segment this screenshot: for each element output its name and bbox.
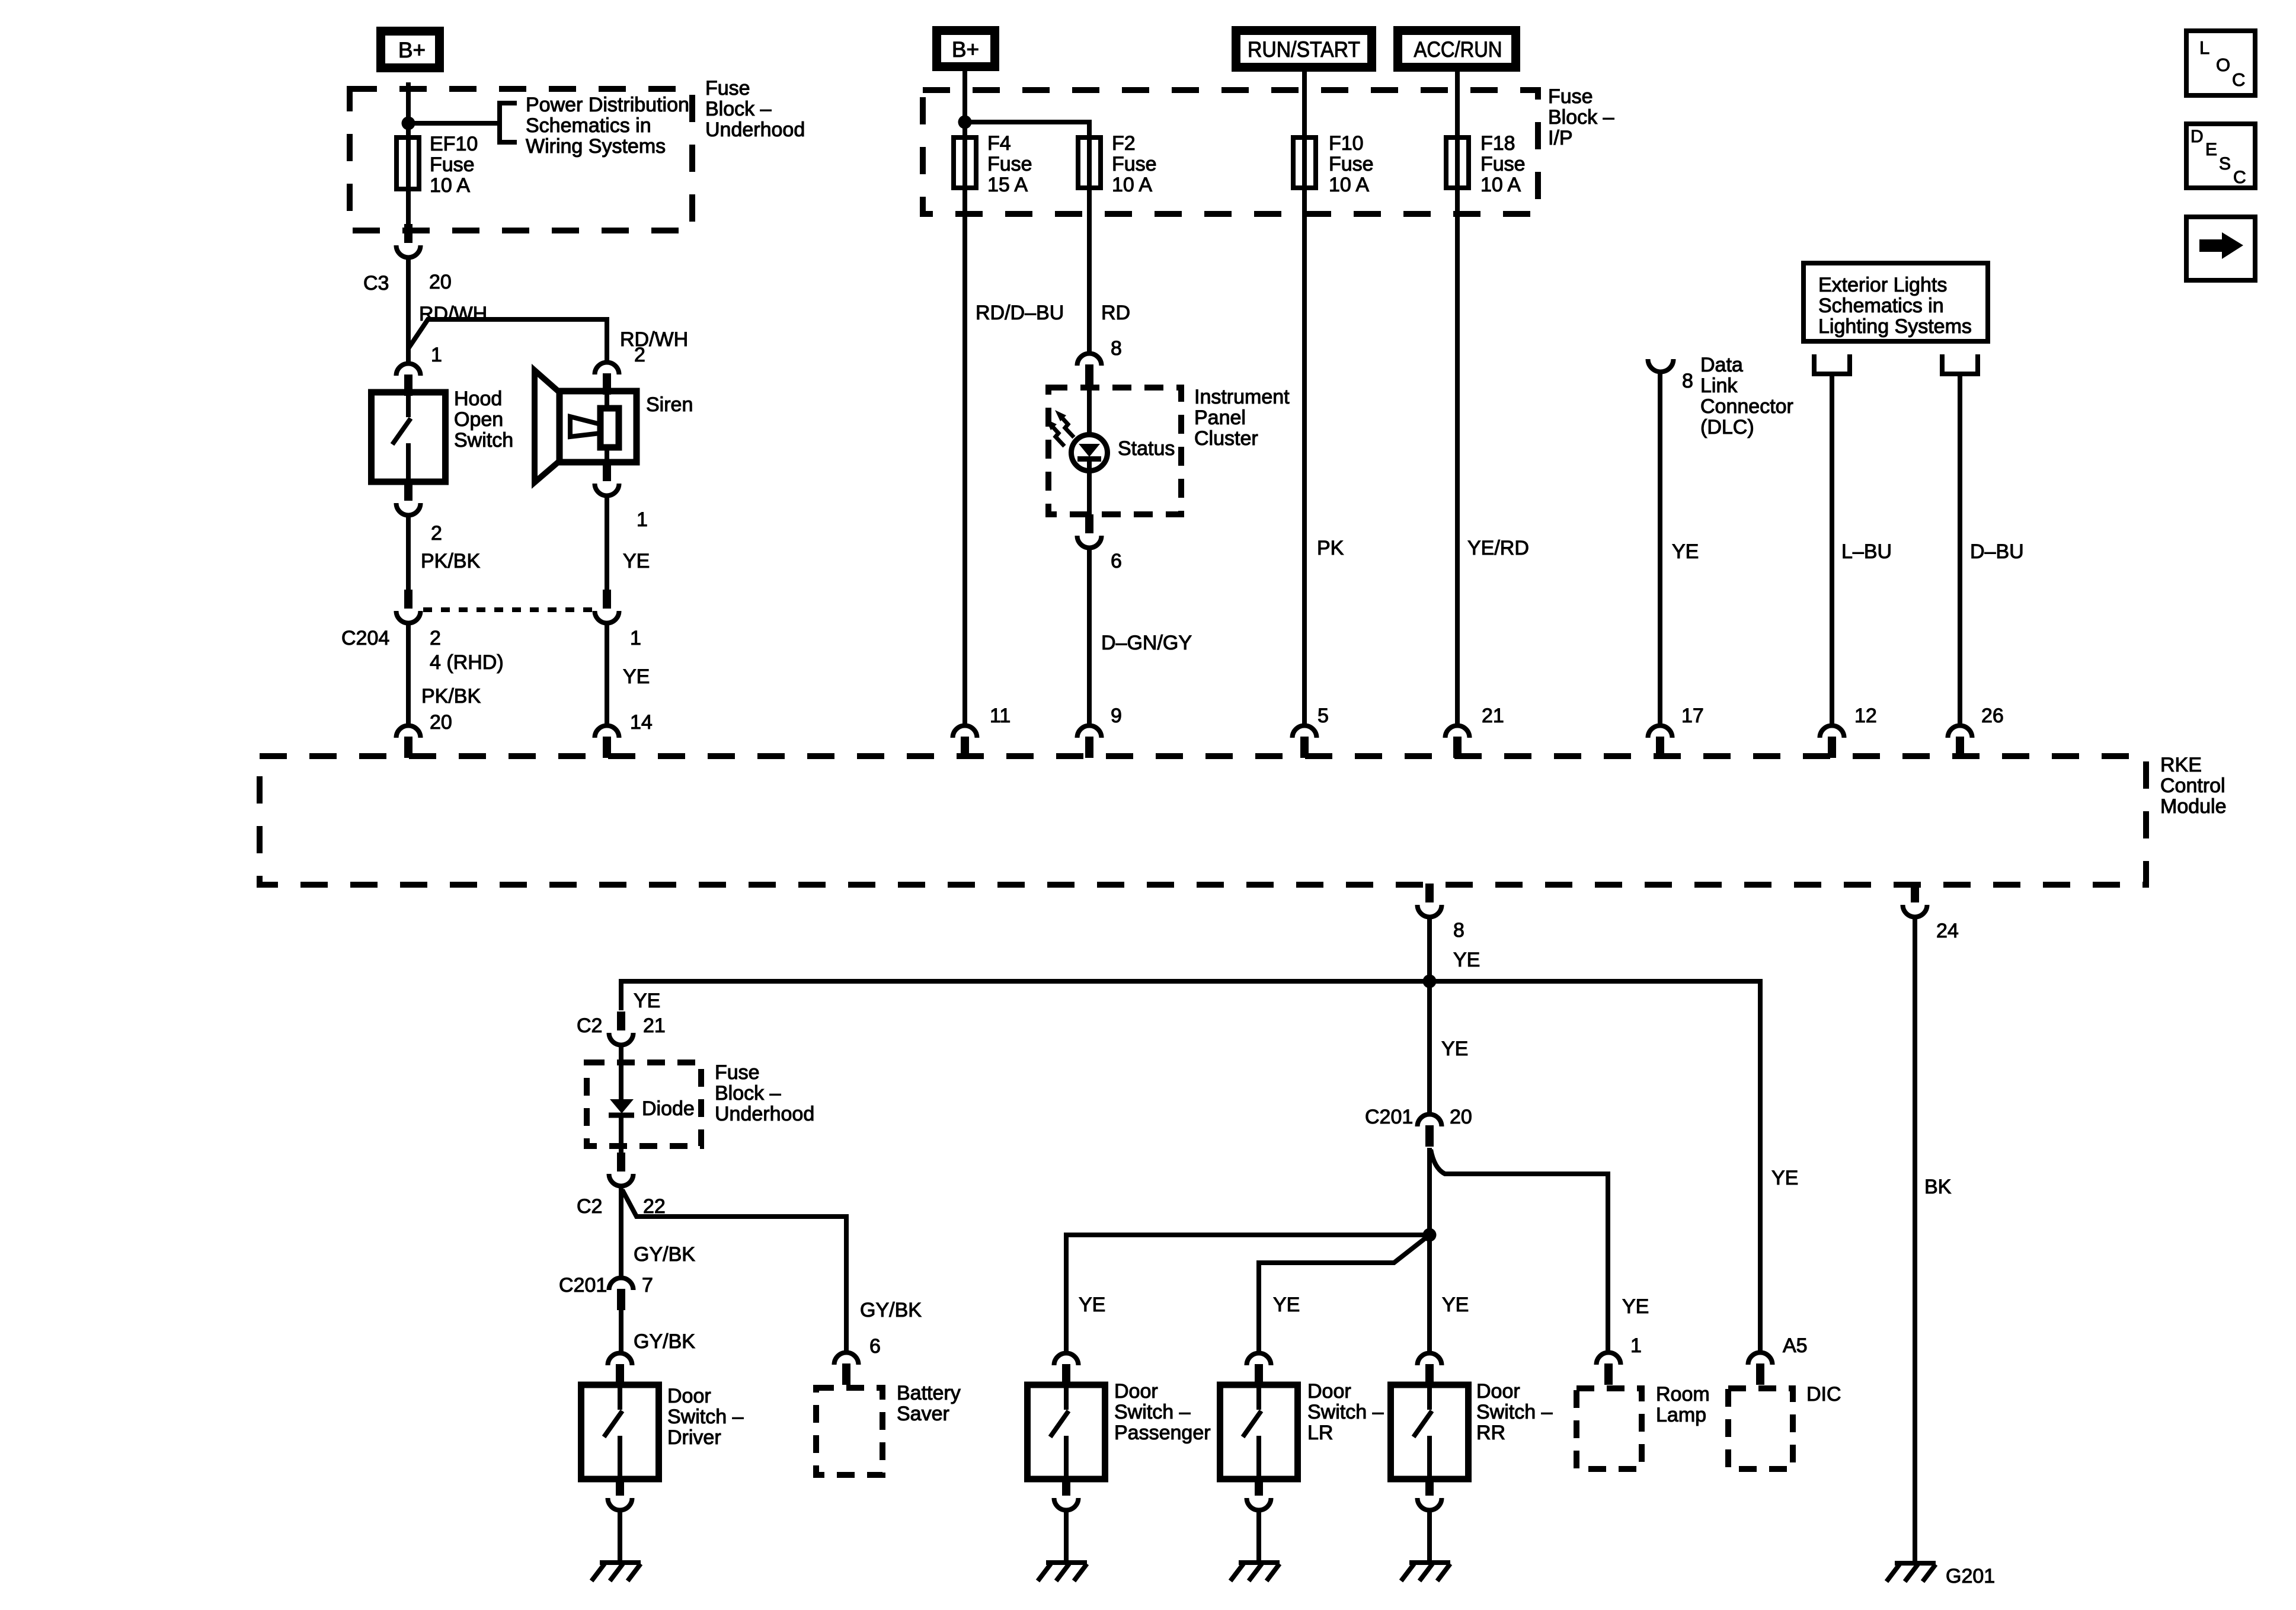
svg-text:YE: YE: [1622, 1295, 1649, 1318]
svg-text:EF10: EF10: [430, 133, 478, 155]
icon box DESC: [2186, 124, 2255, 188]
svg-text:Schematics in: Schematics in: [526, 114, 651, 137]
svg-text:Door: Door: [667, 1385, 711, 1407]
wire C3 to hood open switch: [406, 260, 411, 363]
svg-text:Fuse: Fuse: [715, 1061, 760, 1084]
label Power Distribution Schematics in Wiring Systems: [526, 94, 689, 158]
bracket to D-BU wire: [1942, 354, 1978, 374]
svg-text:F4: F4: [987, 132, 1011, 155]
svg-text:Fuse: Fuse: [1480, 153, 1526, 175]
label YE (RR): [1442, 1294, 1469, 1316]
svg-text:Link: Link: [1700, 375, 1738, 397]
svg-text:PK/BK: PK/BK: [421, 550, 480, 572]
wire C204 to RKE pin 20: [406, 625, 411, 724]
wire passenger switch to ground: [1064, 1512, 1069, 1563]
svg-text:1: 1: [637, 508, 648, 531]
connector hood switch pin 2: [396, 482, 421, 515]
label Instrument Panel Cluster: [1194, 386, 1290, 450]
svg-text:Status: Status: [1118, 437, 1175, 460]
label GY/BK (to driver switch): [634, 1330, 695, 1353]
label PK/BK (hood sw to C204): [421, 550, 480, 572]
connector RKE pin 26: [1948, 726, 1972, 758]
wire to passenger door switch: [1066, 1235, 1430, 1352]
label RD: [1101, 302, 1130, 324]
svg-text:RUN/START: RUN/START: [1248, 37, 1360, 62]
wire C201-20 down: [1427, 1148, 1432, 1235]
svg-text:Switch –: Switch –: [1307, 1401, 1384, 1423]
connector siren pin 1: [595, 462, 619, 495]
connector RKE pin 8: [1418, 884, 1442, 917]
connector door switch RR pin: [1418, 1353, 1442, 1385]
wire hood switch to C204: [406, 517, 411, 592]
svg-text:20: 20: [429, 271, 452, 293]
connector C3 pin 20: [396, 224, 421, 257]
svg-text:GY/BK: GY/BK: [860, 1299, 922, 1321]
label 9 (RKE pin): [1111, 705, 1122, 727]
label RKE Control Module: [2160, 754, 2227, 818]
wire lamp feed bus: [621, 981, 1760, 1352]
wire pin 8 to junction: [1427, 919, 1432, 981]
junction dot I/P: [958, 116, 972, 129]
svg-text:L: L: [2199, 37, 2209, 58]
fuse EF10 10A: [396, 135, 419, 191]
svg-text:Fuse: Fuse: [987, 153, 1032, 175]
power symbol RUN/START: [1236, 31, 1372, 68]
wire junction to reference bracket: [408, 121, 498, 126]
wire F18 to RKE pin 21: [1455, 190, 1460, 724]
label 1 (room lamp pin): [1630, 1334, 1642, 1357]
wire RUN/START to fuse F10: [1302, 71, 1307, 144]
label RD/WH (hood switch wire): [419, 303, 487, 325]
svg-text:YE: YE: [1771, 1167, 1798, 1189]
svg-text:YE: YE: [1079, 1294, 1105, 1316]
svg-text:YE: YE: [634, 990, 660, 1012]
label 1 (C204 siren side): [630, 627, 641, 649]
label 12 (RKE pin): [1854, 705, 1877, 727]
label Battery Saver: [897, 1382, 961, 1425]
svg-text:Door: Door: [1307, 1380, 1351, 1403]
label RD/WH (siren wire): [620, 328, 688, 351]
svg-text:DIC: DIC: [1806, 1383, 1841, 1406]
svg-text:Module: Module: [2160, 795, 2227, 818]
connector IPC pin 8: [1077, 354, 1102, 386]
svg-text:YE: YE: [623, 665, 650, 688]
connector RKE pin 12: [1820, 726, 1844, 758]
svg-text:YE: YE: [1441, 1038, 1468, 1060]
wire IPC to RKE pin 9: [1087, 550, 1092, 724]
label 6 (battery saver pin): [869, 1335, 881, 1358]
svg-text:15 A: 15 A: [987, 174, 1028, 196]
connector door switch LR pin: [1247, 1353, 1271, 1385]
svg-text:Hood: Hood: [454, 388, 502, 410]
label 1 (hood switch pin): [431, 344, 442, 366]
svg-text:YE: YE: [1442, 1294, 1469, 1316]
connector IPC pin 6: [1077, 514, 1102, 548]
label Fuse Block - Underhood: [705, 77, 805, 141]
wire C204 to RKE pin 14: [605, 625, 609, 724]
diode: [609, 1047, 634, 1150]
label Door Switch - LR: [1307, 1380, 1384, 1444]
svg-text:Wiring Systems: Wiring Systems: [526, 135, 666, 158]
wire driver switch to ground: [618, 1512, 622, 1563]
label C3: [363, 272, 389, 295]
label EF10 Fuse 10 A: [430, 133, 478, 197]
fuse F18 10A: [1446, 135, 1469, 190]
wire ACC/RUN to fuse F18: [1455, 71, 1460, 144]
svg-text:Siren: Siren: [646, 393, 693, 416]
connector below driver switch: [608, 1477, 632, 1510]
svg-text:10 A: 10 A: [1112, 174, 1152, 196]
label Hood Open Switch: [454, 388, 513, 452]
svg-text:8: 8: [1111, 337, 1122, 360]
label 8 (RKE output pin): [1453, 919, 1464, 942]
connector DIC pin A5: [1748, 1353, 1773, 1385]
svg-text:1: 1: [431, 344, 442, 366]
svg-text:(DLC): (DLC): [1700, 416, 1754, 438]
svg-text:5: 5: [1318, 705, 1329, 727]
svg-text:RR: RR: [1476, 1422, 1505, 1444]
wire C2-22 branch to battery saver: [622, 1190, 846, 1352]
connector RKE pin 17: [1648, 726, 1673, 758]
label YE (LR): [1273, 1294, 1300, 1316]
svg-text:Switch –: Switch –: [1114, 1401, 1191, 1423]
wire C201-7 to driver door switch: [619, 1310, 623, 1352]
svg-text:21: 21: [643, 1014, 666, 1037]
label Room Lamp: [1656, 1383, 1710, 1426]
label C201 (7): [559, 1274, 607, 1297]
label 11 (RKE pin): [990, 705, 1011, 727]
label Fuse Block - Underhood (diode): [715, 1061, 814, 1125]
wire B+ to fuse F4: [962, 71, 967, 144]
ground (LR door switch): [1230, 1563, 1280, 1581]
svg-text:Saver: Saver: [897, 1403, 949, 1425]
svg-text:10 A: 10 A: [1480, 174, 1521, 196]
battery saver dashed box: [816, 1388, 882, 1475]
label F2 Fuse 10 A: [1112, 132, 1157, 196]
svg-text:Block –: Block –: [1548, 106, 1614, 129]
svg-text:17: 17: [1681, 705, 1704, 727]
svg-text:C2: C2: [577, 1014, 602, 1037]
wire C201-20 to room lamp: [1431, 1150, 1609, 1352]
wire C2-22 to C201-7: [619, 1188, 623, 1277]
wire F10 to RKE pin 5: [1302, 190, 1307, 724]
svg-text:ACC/RUN: ACC/RUN: [1414, 37, 1502, 62]
fuse F4 15A: [954, 135, 976, 190]
ground (driver door switch): [591, 1563, 641, 1581]
label 6 (IPC pin): [1111, 550, 1122, 572]
connector door switch passenger pin: [1054, 1353, 1079, 1385]
wire junction to C201-20: [1427, 981, 1432, 1113]
wire LR switch to ground: [1256, 1512, 1261, 1563]
svg-text:RD/WH: RD/WH: [620, 328, 688, 351]
wire siren to C204: [605, 498, 609, 592]
connector RKE pin 20: [396, 726, 421, 758]
svg-text:Fuse: Fuse: [1548, 85, 1593, 108]
svg-text:Switch: Switch: [454, 429, 513, 452]
room lamp dashed box: [1576, 1388, 1642, 1469]
connector below LR switch: [1247, 1477, 1271, 1510]
label F18 Fuse 10 A: [1480, 132, 1526, 196]
svg-text:Block –: Block –: [715, 1082, 781, 1105]
svg-text:PK: PK: [1317, 537, 1344, 559]
svg-text:6: 6: [1111, 550, 1122, 572]
svg-text:10 A: 10 A: [1329, 174, 1369, 196]
label YE/RD: [1467, 537, 1529, 559]
svg-text:Room: Room: [1656, 1383, 1710, 1406]
fuse F2 10A: [1078, 135, 1101, 190]
label F4 Fuse 15 A: [987, 132, 1032, 196]
svg-text:20: 20: [1450, 1106, 1472, 1128]
svg-text:Block –: Block –: [705, 98, 772, 120]
connector RKE pin 5: [1293, 726, 1317, 758]
svg-text:20: 20: [430, 711, 452, 734]
label PK/BK (C204 to RKE): [421, 685, 481, 708]
svg-text:Fuse: Fuse: [705, 77, 750, 100]
label 2 (hood switch lower pin): [431, 522, 442, 545]
label D-GN/GY: [1101, 632, 1192, 654]
label A5 (DIC pin): [1783, 1334, 1808, 1357]
fuse block underhood diode dashed box: [587, 1062, 701, 1146]
connector C201 pin 7: [609, 1278, 634, 1310]
label Siren: [646, 393, 693, 416]
label Data Link Connector (DLC): [1700, 354, 1793, 438]
svg-text:F2: F2: [1112, 132, 1136, 155]
svg-text:7: 7: [642, 1274, 653, 1297]
svg-text:PK/BK: PK/BK: [421, 685, 481, 708]
svg-text:E: E: [2205, 140, 2217, 159]
svg-text:Diode: Diode: [642, 1097, 695, 1120]
connector DLC pin 8: [1648, 359, 1674, 372]
label YE (to DIC): [1771, 1167, 1798, 1189]
svg-text:S: S: [2219, 154, 2231, 174]
connector RKE pin 14: [595, 726, 619, 758]
door switch - passenger: [1028, 1385, 1105, 1479]
svg-text:2: 2: [634, 344, 645, 366]
svg-text:GY/BK: GY/BK: [634, 1330, 695, 1353]
svg-text:G201: G201: [1946, 1565, 1995, 1587]
connector C204 pin 1: [595, 590, 619, 623]
svg-text:B+: B+: [398, 38, 426, 62]
svg-text:2: 2: [430, 627, 441, 649]
label 21 (C2 pin): [643, 1014, 666, 1037]
wire to LR door switch: [1259, 1235, 1430, 1352]
svg-text:Switch –: Switch –: [1476, 1401, 1553, 1423]
wire RR switch to ground: [1427, 1512, 1432, 1563]
label C2 (22): [577, 1195, 602, 1218]
svg-text:6: 6: [869, 1335, 881, 1358]
svg-text:Control: Control: [2160, 774, 2225, 797]
svg-text:Connector: Connector: [1700, 395, 1793, 418]
svg-text:24: 24: [1936, 920, 1959, 942]
svg-text:YE: YE: [1672, 540, 1699, 563]
svg-text:Power Distribution: Power Distribution: [526, 94, 689, 116]
power symbol B+ (I/P feed): [937, 31, 995, 67]
svg-text:Open: Open: [454, 408, 503, 431]
connector siren pin 2: [595, 363, 619, 395]
ground G201: [1886, 1563, 1936, 1582]
connector C2 pin 21: [609, 1012, 634, 1045]
reference bracket (power distribution): [500, 103, 517, 142]
label YE (junction down): [1441, 1038, 1468, 1060]
svg-text:F10: F10: [1329, 132, 1364, 155]
label 24 (RKE pin): [1936, 920, 1959, 942]
ground (passenger door switch): [1038, 1563, 1087, 1581]
connector room lamp pin 1: [1597, 1353, 1621, 1385]
connector hood switch pin 1: [396, 364, 421, 396]
label 7 (C201 pin): [642, 1274, 653, 1297]
wire F2 to instrument panel cluster: [1087, 190, 1092, 353]
svg-text:RKE: RKE: [2160, 754, 2202, 776]
bracket to L-BU wire: [1814, 354, 1850, 374]
label 20 (C3 pin): [429, 271, 452, 293]
label 20 (RKE pin): [430, 711, 452, 734]
svg-text:10 A: 10 A: [430, 174, 470, 197]
svg-text:26: 26: [1981, 705, 2004, 727]
label 8 (DLC pin): [1682, 370, 1693, 392]
connector C204 pin 2: [396, 590, 421, 623]
fuse block I/P dashed box: [923, 90, 1538, 214]
label YE (DLC wire): [1672, 540, 1699, 563]
svg-text:C204: C204: [341, 627, 389, 649]
C204 mating dotted line: [423, 607, 593, 612]
label Door Switch - Driver: [667, 1385, 744, 1449]
icon box arrow: [2186, 217, 2255, 280]
power symbol B+ (underhood feed): [381, 31, 440, 68]
door switch - driver: [581, 1385, 659, 1479]
label Door Switch - RR: [1476, 1380, 1553, 1444]
label 2 (C204): [430, 627, 441, 649]
junction dot underhood: [402, 117, 415, 130]
svg-text:Schematics in: Schematics in: [1818, 295, 1944, 317]
hood open switch: [372, 392, 446, 482]
junction dot door switches: [1423, 1228, 1437, 1242]
svg-text:RD/WH: RD/WH: [419, 303, 487, 325]
svg-text:8: 8: [1453, 919, 1464, 942]
label 1 (siren lower pin): [637, 508, 648, 531]
svg-text:Exterior Lights: Exterior Lights: [1818, 274, 1947, 296]
svg-text:L–BU: L–BU: [1841, 540, 1892, 563]
wire L-BU to RKE pin 12: [1830, 374, 1834, 724]
svg-text:YE: YE: [1453, 949, 1480, 971]
svg-text:LR: LR: [1307, 1422, 1333, 1444]
connector RKE pin 9: [1077, 726, 1102, 758]
svg-text:Fuse: Fuse: [1112, 153, 1157, 175]
svg-text:1: 1: [1630, 1334, 1642, 1357]
svg-text:C: C: [2233, 168, 2246, 187]
svg-text:C201: C201: [559, 1274, 607, 1297]
wire to RR door switch: [1427, 1235, 1432, 1352]
label 5 (RKE pin): [1318, 705, 1329, 727]
svg-text:1: 1: [630, 627, 641, 649]
svg-text:C: C: [2232, 69, 2245, 90]
label YE (passenger): [1079, 1294, 1105, 1316]
wire F4 to RKE pin 11: [962, 190, 967, 724]
svg-text:11: 11: [990, 705, 1011, 727]
RKE control module dashed box: [260, 756, 2146, 885]
fuse block underhood dashed box: [350, 89, 692, 231]
door switch - LR: [1220, 1385, 1298, 1479]
svg-text:D–GN/GY: D–GN/GY: [1101, 632, 1192, 654]
wire B+ to fuse EF10: [406, 82, 411, 237]
label DIC: [1806, 1383, 1841, 1406]
instrument panel cluster dashed box: [1048, 388, 1181, 514]
svg-text:F18: F18: [1480, 132, 1515, 155]
fuse F10 10A: [1293, 135, 1316, 190]
label GY/BK (battery saver wire): [860, 1299, 922, 1321]
svg-text:O: O: [2216, 55, 2230, 75]
label Status: [1118, 437, 1175, 460]
wire junction to fuse F2: [965, 122, 1089, 144]
label PK: [1317, 537, 1344, 559]
siren symbol: [535, 370, 637, 482]
svg-text:Door: Door: [1476, 1380, 1520, 1403]
label RD/D-BU: [976, 302, 1064, 324]
svg-text:B+: B+: [952, 37, 979, 62]
svg-text:RD: RD: [1101, 302, 1130, 324]
exterior lights schematics box: [1803, 263, 1988, 341]
label C2 (21): [577, 1014, 602, 1037]
svg-text:Instrument: Instrument: [1194, 386, 1290, 408]
svg-text:Lighting Systems: Lighting Systems: [1818, 315, 1972, 338]
svg-text:Data: Data: [1700, 354, 1743, 376]
svg-text:YE: YE: [1273, 1294, 1300, 1316]
wire D-BU to RKE pin 26: [1958, 374, 1962, 724]
svg-text:GY/BK: GY/BK: [634, 1243, 695, 1266]
label L-BU: [1841, 540, 1892, 563]
svg-text:Underhood: Underhood: [705, 119, 805, 141]
label 21 (RKE pin): [1482, 705, 1504, 727]
svg-text:Battery: Battery: [897, 1382, 961, 1404]
label BK: [1924, 1176, 1952, 1198]
svg-text:Fuse: Fuse: [430, 153, 475, 176]
svg-text:RD/D–BU: RD/D–BU: [976, 302, 1064, 324]
svg-text:Fuse: Fuse: [1329, 153, 1374, 175]
label C201 (20): [1365, 1106, 1413, 1128]
power symbol ACC/RUN: [1398, 31, 1516, 68]
label YE (pin 8 wire): [1453, 949, 1480, 971]
svg-text:C3: C3: [363, 272, 389, 295]
label 20 (C201 pin): [1450, 1106, 1472, 1128]
svg-text:Driver: Driver: [667, 1426, 721, 1449]
svg-text:D–BU: D–BU: [1970, 540, 2024, 563]
svg-text:A5: A5: [1783, 1334, 1808, 1357]
connector C201 pin 20: [1418, 1115, 1442, 1147]
label 2 (siren pin): [634, 344, 645, 366]
ground (RR door switch): [1401, 1563, 1450, 1581]
label D-BU: [1970, 540, 2024, 563]
svg-text:D: D: [2191, 127, 2204, 146]
label 17 (RKE pin): [1681, 705, 1704, 727]
svg-text:Panel: Panel: [1194, 406, 1246, 429]
svg-text:Switch –: Switch –: [667, 1406, 744, 1428]
label Exterior Lights Schematics in Lighting Systems: [1818, 274, 1972, 338]
svg-text:Underhood: Underhood: [715, 1103, 814, 1125]
label G201: [1946, 1565, 1995, 1587]
label GY/BK (C2 to C201): [634, 1243, 695, 1266]
connector C2 pin 22: [609, 1147, 634, 1186]
junction dot lamp feed: [1423, 975, 1437, 988]
label YE (to diode): [634, 990, 660, 1012]
label Door Switch - Passenger: [1114, 1380, 1211, 1444]
svg-text:9: 9: [1111, 705, 1122, 727]
svg-text:Passenger: Passenger: [1114, 1422, 1211, 1444]
label F10 Fuse 10 A: [1329, 132, 1374, 196]
connector RKE pin 24: [1903, 884, 1927, 917]
svg-text:I/P: I/P: [1548, 127, 1573, 149]
svg-text:21: 21: [1482, 705, 1504, 727]
status LED: [1045, 387, 1108, 514]
svg-text:C2: C2: [577, 1195, 602, 1218]
